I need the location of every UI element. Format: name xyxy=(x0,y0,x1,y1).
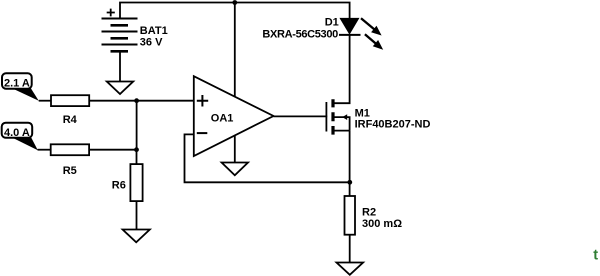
svg-text:t: t xyxy=(593,248,598,264)
ground op-amp xyxy=(222,163,248,176)
wire top rail xyxy=(120,3,350,19)
wire op-amp output to gate xyxy=(274,115,328,117)
ground R6 xyxy=(123,230,150,243)
wire R2 to ground xyxy=(349,235,351,263)
ground battery xyxy=(107,82,133,95)
resistor R4 xyxy=(51,95,89,126)
wire source to R2 xyxy=(349,131,351,196)
svg-text:300 mΩ: 300 mΩ xyxy=(362,218,402,230)
wire R5 to node B xyxy=(89,149,137,151)
transistor M1 xyxy=(326,99,430,134)
resistor R5 xyxy=(51,144,89,177)
wire op-amp V- to ground xyxy=(234,135,236,163)
svg-text:R5: R5 xyxy=(63,165,77,177)
svg-text:BAT1: BAT1 xyxy=(140,25,168,37)
resistor R2 xyxy=(345,196,403,235)
junction top rail / op-amp supply xyxy=(232,0,237,5)
probe label 2.1 A xyxy=(2,73,39,100)
svg-text:BXRA-56C5300: BXRA-56C5300 xyxy=(262,29,338,41)
wire R4 to op-amp noninverting input xyxy=(89,100,194,102)
junction feedback source node xyxy=(347,180,352,185)
wire R6 to ground xyxy=(136,201,138,229)
junction node A xyxy=(134,98,139,103)
svg-text:R2: R2 xyxy=(362,206,376,218)
wire probe to R4 xyxy=(39,100,51,102)
battery BAT1 xyxy=(102,9,168,52)
wire battery negative to ground xyxy=(119,51,121,81)
wire node A to node B xyxy=(136,101,138,150)
wire inverting input feedback xyxy=(185,134,350,182)
svg-text:D1: D1 xyxy=(325,16,339,28)
LED D1 xyxy=(262,16,383,49)
resistor R6 xyxy=(112,164,143,201)
wire op-amp V+ supply xyxy=(234,3,236,98)
op-amp OA1 xyxy=(194,76,274,156)
wire probe to R5 xyxy=(38,149,51,151)
wire node B to R6 xyxy=(136,150,138,164)
wire LED cathode to drain xyxy=(349,35,351,103)
svg-text:2.1 A: 2.1 A xyxy=(4,77,30,89)
svg-text:4.0 A: 4.0 A xyxy=(4,127,30,139)
svg-text:R4: R4 xyxy=(63,114,78,126)
svg-text:OA1: OA1 xyxy=(211,113,234,125)
probe label 4.0 A xyxy=(2,123,38,151)
svg-text:R6: R6 xyxy=(112,180,126,192)
svg-text:36 V: 36 V xyxy=(140,36,163,48)
ground R2 xyxy=(337,263,364,275)
svg-text:IRF40B207-ND: IRF40B207-ND xyxy=(355,119,431,131)
junction node B xyxy=(134,147,139,152)
